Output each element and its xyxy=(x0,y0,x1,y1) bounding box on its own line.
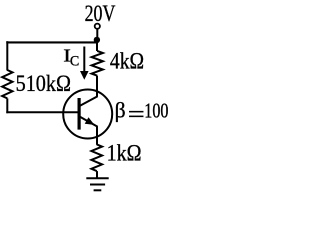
transistor Q1 emitter arrow xyxy=(85,117,95,125)
wire base horizontal xyxy=(6,111,79,113)
ground symbol xyxy=(86,177,108,179)
transistor Q1 collector lead xyxy=(80,96,98,106)
svg-text:100: 100 xyxy=(144,100,168,123)
svg-text:510kΩ: 510kΩ xyxy=(16,71,71,97)
wire emitter to ground xyxy=(96,171,98,178)
svg-text:1kΩ: 1kΩ xyxy=(107,140,142,165)
wire terminal to junction xyxy=(96,29,98,40)
wire collector upper xyxy=(96,42,98,51)
wire left vertical lower xyxy=(6,98,8,113)
junction dot node VCC xyxy=(94,37,100,43)
arrow IC pointing down xyxy=(83,47,85,73)
wire left vertical upper xyxy=(6,41,8,70)
transistor Q1 emitter lead xyxy=(80,117,98,127)
svg-text:4kΩ: 4kΩ xyxy=(110,49,144,74)
svg-text:=: = xyxy=(128,102,145,128)
wire top horizontal xyxy=(6,41,97,43)
transistor Q1 base bar xyxy=(77,98,80,130)
resistor R2 4k zigzag xyxy=(92,51,103,76)
terminal (open circle) at 20V xyxy=(95,24,100,29)
svg-text:C: C xyxy=(70,54,79,70)
svg-text:β: β xyxy=(115,98,126,123)
svg-text:20V: 20V xyxy=(85,1,116,27)
resistor R3 1k zigzag xyxy=(91,144,102,171)
wire emitter vertical xyxy=(96,127,98,145)
resistor R1 510k zigzag xyxy=(2,70,12,98)
transistor Q1 circle xyxy=(63,90,112,139)
wire collector lower xyxy=(96,76,98,97)
